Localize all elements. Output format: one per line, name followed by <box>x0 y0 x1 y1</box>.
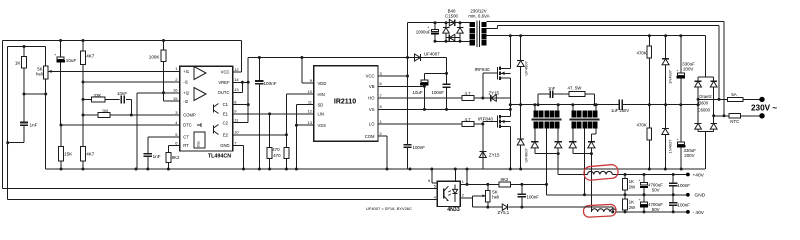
svg-text:Graetz: Graetz <box>699 94 712 99</box>
svg-text:8K2: 8K2 <box>172 155 180 160</box>
svg-text:10nF: 10nF <box>117 91 127 96</box>
svg-text:100nF: 100nF <box>678 183 691 188</box>
svg-text:1: 1 <box>462 180 464 184</box>
svg-text:5A: 5A <box>731 92 736 97</box>
svg-text:ZY15: ZY15 <box>489 152 500 157</box>
svg-text:VCC: VCC <box>221 70 230 75</box>
svg-text:C6000: C6000 <box>698 108 711 113</box>
svg-text:100nF: 100nF <box>413 145 426 150</box>
svg-text:UF4007 = SF18, BYV26C: UF4007 = SF18, BYV26C <box>366 206 412 211</box>
svg-text:230V ~: 230V ~ <box>751 104 777 113</box>
svg-text:ZY5,1: ZY5,1 <box>498 210 510 215</box>
svg-text:1nF: 1nF <box>30 122 38 127</box>
svg-text:4,7: 4,7 <box>465 91 472 96</box>
svg-text:4K7: 4K7 <box>86 151 95 156</box>
svg-text:E1: E1 <box>223 112 229 117</box>
svg-text:HO: HO <box>368 96 375 101</box>
svg-text:+40V: +40V <box>693 172 705 178</box>
svg-text:470K: 470K <box>637 122 647 127</box>
svg-text:LO: LO <box>369 122 375 127</box>
svg-text:100nF: 100nF <box>527 195 540 200</box>
svg-text:470K: 470K <box>637 50 647 55</box>
svg-text:GND: GND <box>220 143 229 148</box>
svg-text:min. 0,6VA: min. 0,6VA <box>468 14 489 19</box>
svg-text:- 40V: - 40V <box>693 210 705 216</box>
svg-text:4K7: 4K7 <box>86 54 95 59</box>
svg-text:4: 4 <box>434 196 436 200</box>
svg-text:LIN: LIN <box>318 112 325 117</box>
svg-text:1K: 1K <box>15 61 22 66</box>
svg-text:47, 5W: 47, 5W <box>568 86 583 91</box>
svg-text:DTC: DTC <box>183 123 192 128</box>
svg-text:1K: 1K <box>629 199 634 204</box>
svg-text:OUTC: OUTC <box>218 90 230 95</box>
svg-text:IR2110: IR2110 <box>334 99 356 106</box>
svg-text:13: 13 <box>234 87 239 92</box>
svg-text:1nF: 1nF <box>153 154 161 159</box>
svg-text:C2: C2 <box>223 120 229 125</box>
svg-text:COMP: COMP <box>183 113 196 118</box>
svg-text:8K2: 8K2 <box>501 177 509 182</box>
svg-text:50V: 50V <box>652 187 660 192</box>
svg-text:VCC: VCC <box>366 74 375 79</box>
svg-text:COM: COM <box>365 134 375 139</box>
svg-text:200V: 200V <box>683 66 693 71</box>
svg-text:200V: 200V <box>684 153 694 158</box>
svg-text:-I1: -I1 <box>183 80 189 85</box>
svg-text:C1500: C1500 <box>445 14 458 19</box>
svg-text:100nF: 100nF <box>432 90 445 95</box>
svg-text:10: 10 <box>308 89 313 94</box>
svg-text:1uF 250V: 1uF 250V <box>611 108 629 113</box>
svg-text:SD: SD <box>318 102 324 107</box>
svg-text:10: 10 <box>234 130 239 135</box>
svg-text:100nF: 100nF <box>678 203 691 208</box>
svg-text:12: 12 <box>308 109 313 114</box>
svg-text:50V: 50V <box>652 207 660 212</box>
svg-text:10uF: 10uF <box>66 58 77 63</box>
svg-text:TL494CN: TL494CN <box>208 153 231 159</box>
svg-text:HIN: HIN <box>318 92 325 97</box>
svg-text:1N4937: 1N4937 <box>667 139 672 154</box>
svg-text:4,7: 4,7 <box>465 117 472 122</box>
svg-text:IRF840: IRF840 <box>475 67 491 72</box>
svg-text:2W: 2W <box>629 185 636 190</box>
svg-text:E2: E2 <box>223 132 229 137</box>
svg-text:VB: VB <box>369 84 375 89</box>
svg-text:UF4007: UF4007 <box>424 52 440 57</box>
svg-text:B600: B600 <box>698 101 708 106</box>
svg-text:6: 6 <box>428 179 430 183</box>
svg-text:ZY15: ZY15 <box>489 90 500 95</box>
svg-text:RT: RT <box>183 143 189 148</box>
svg-text:CT: CT <box>183 135 189 140</box>
svg-text:1nF: 1nF <box>548 86 556 91</box>
svg-text:16: 16 <box>173 88 178 93</box>
svg-text:+I1: +I1 <box>183 69 190 74</box>
svg-text:VSS: VSS <box>318 123 327 128</box>
svg-text:VDD: VDD <box>318 81 327 86</box>
svg-text:470: 470 <box>273 153 281 158</box>
svg-text:1K: 1K <box>629 179 634 184</box>
svg-text:2: 2 <box>462 194 464 198</box>
svg-text:5: 5 <box>434 185 436 189</box>
svg-text:10uF: 10uF <box>413 90 423 95</box>
svg-text:IRF840: IRF840 <box>478 117 494 122</box>
svg-text:GND: GND <box>695 193 706 199</box>
svg-text:33K: 33K <box>94 93 102 98</box>
svg-text:1N4937: 1N4937 <box>668 69 673 84</box>
svg-text:+I2: +I2 <box>183 91 190 96</box>
svg-text:VS: VS <box>369 107 375 112</box>
svg-text:NTC: NTC <box>730 119 739 124</box>
svg-text:12: 12 <box>234 67 239 72</box>
svg-text:C1: C1 <box>223 102 229 107</box>
svg-text:15K: 15K <box>64 151 73 156</box>
svg-text:15: 15 <box>173 96 178 101</box>
svg-text:13: 13 <box>308 120 313 125</box>
svg-text:4N33: 4N33 <box>447 207 460 213</box>
svg-text:1000uF: 1000uF <box>416 30 431 35</box>
svg-text:2W: 2W <box>629 205 636 210</box>
svg-text:1M: 1M <box>102 109 108 114</box>
svg-text:100K: 100K <box>149 55 161 60</box>
svg-text:Osc: Osc <box>197 141 201 148</box>
svg-text:14: 14 <box>234 77 239 82</box>
svg-text:100nF: 100nF <box>264 81 277 86</box>
svg-text:heli: heli <box>36 72 43 77</box>
svg-text:heli: heli <box>492 194 499 199</box>
svg-text:470: 470 <box>272 147 280 152</box>
svg-text:-I2: -I2 <box>183 99 189 104</box>
svg-text:UF4007: UF4007 <box>524 147 529 162</box>
svg-text:UF4007: UF4007 <box>524 60 529 75</box>
svg-text:VREF: VREF <box>218 80 230 85</box>
